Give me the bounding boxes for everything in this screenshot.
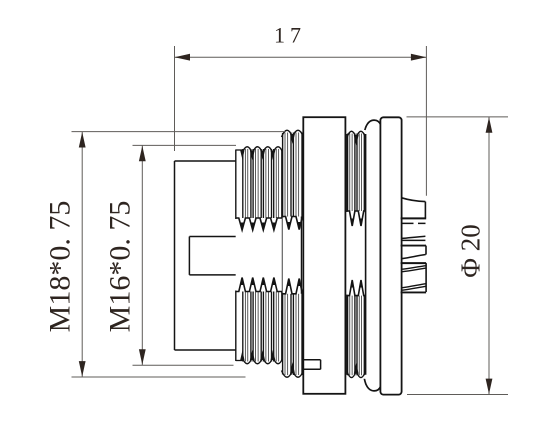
thread M16 [236, 146, 283, 366]
back plate [380, 117, 401, 394]
thread M18 runout edge [300, 217, 302, 294]
flange tab [303, 360, 320, 370]
key slot [189, 237, 235, 275]
dimension M18*0.75 [44, 132, 286, 377]
mounting flange [303, 117, 345, 394]
rear thread [347, 130, 366, 379]
dimension M16*0.75 [104, 145, 237, 365]
dimension Φ20 [407, 117, 509, 395]
solder contacts [401, 198, 427, 293]
svg-text:M18*0. 75: M18*0. 75 [44, 201, 77, 333]
svg-text:Φ 20: Φ 20 [456, 224, 486, 278]
thread M18 [282, 129, 304, 379]
svg-text:17: 17 [274, 23, 306, 48]
svg-text:M16*0. 75: M16*0. 75 [104, 201, 137, 333]
seal washer [364, 120, 381, 391]
dimension 17 [175, 23, 427, 196]
shell body [175, 161, 236, 350]
